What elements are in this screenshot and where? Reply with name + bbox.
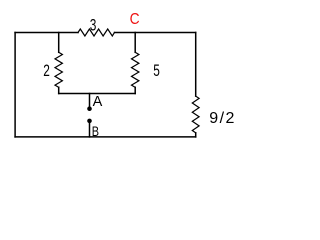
- svg-text:2: 2: [43, 62, 50, 80]
- resistor 5 (right inner vertical zigzag): [132, 52, 139, 87]
- wire bottom side: [15, 136, 196, 138]
- resistor 2 (left vertical zigzag): [55, 52, 62, 87]
- svg-text:B: B: [92, 124, 99, 140]
- svg-text:5: 5: [153, 62, 160, 80]
- wire stub from node B to bottom wire: [89, 122, 91, 137]
- node A dot: [87, 106, 92, 111]
- node B dot: [87, 119, 92, 124]
- svg-text:3: 3: [90, 17, 97, 35]
- wire top side left segment: [15, 32, 78, 34]
- wire right side lower segment: [195, 133, 197, 137]
- wire below resistor 2: [58, 87, 60, 93]
- svg-text:C: C: [130, 11, 140, 28]
- wire top side right segment: [115, 32, 196, 34]
- wire stub to node A: [89, 94, 91, 108]
- resistor 9/2 (right vertical zigzag): [192, 96, 199, 133]
- wire right side upper segment: [195, 33, 197, 97]
- svg-text:A: A: [93, 94, 103, 110]
- wire below resistor 5: [134, 87, 136, 93]
- svg-text:9/2: 9/2: [209, 110, 235, 127]
- wire inner left vertical drop from top: [58, 33, 60, 53]
- wire left side: [14, 33, 16, 137]
- wire inner bottom: [59, 93, 136, 95]
- wire inner right vertical drop from node C: [134, 33, 136, 53]
- resistor 3 (top horizontal zigzag): [78, 29, 115, 36]
